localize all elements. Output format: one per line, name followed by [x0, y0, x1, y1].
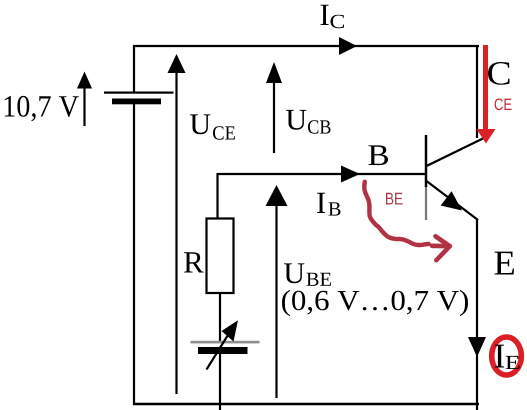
wire left rail lower	[133, 104, 135, 405]
arrow 10,7V polarity	[83, 86, 85, 126]
variable source adjustment arrow diagonal	[207, 335, 229, 370]
label voltage range 0,6V to 0,7V	[282, 290, 468, 316]
label IC	[321, 5, 329, 25]
label IE	[495, 345, 504, 368]
wire variable source to bottom rail	[219, 354, 221, 410]
arrowhead IB current direction on base wire	[341, 166, 360, 183]
label UBE	[284, 263, 304, 283]
wire emitter down to bottom rail	[476, 219, 478, 410]
battery 10,7V short thick plate	[112, 99, 161, 105]
wire base horizontal	[218, 173, 426, 175]
transistor Q1 collector lead	[427, 136, 490, 167]
battery 10,7V long thin plate	[104, 92, 174, 94]
arrow UCB voltage	[273, 80, 275, 153]
wire top rail	[133, 45, 479, 47]
wire right collector drop	[476, 45, 478, 138]
red annotation arrowhead	[477, 129, 496, 144]
label C collector terminal	[488, 62, 510, 85]
label 10,7 V	[5, 96, 79, 121]
variable source long thin plate (gray)	[191, 341, 260, 344]
label BE red annotation	[386, 193, 403, 205]
arrowhead IC current direction on top rail	[339, 37, 357, 55]
arrow UCE voltage	[175, 70, 177, 394]
label IB	[317, 193, 325, 213]
arrow UBE voltage	[275, 203, 277, 398]
wire from base corner down to resistor	[216, 173, 218, 219]
label R	[184, 252, 204, 272]
transistor Q1 emitter lead	[427, 181, 479, 220]
variable source short thick plate	[198, 347, 248, 354]
red annotation line along collector (CE)	[483, 45, 488, 130]
wire bottom rail	[133, 403, 479, 406]
label UCB	[286, 110, 306, 130]
label E emitter terminal	[495, 252, 515, 275]
arrowhead IE current direction on emitter wire	[468, 337, 486, 357]
label CE red annotation	[495, 99, 512, 111]
wire left rail upper	[133, 45, 135, 92]
red ellipse highlight around IE	[492, 337, 522, 375]
wire resistor to variable source	[219, 293, 221, 341]
transistor Q1 base bar	[425, 135, 428, 187]
label UCE	[190, 114, 210, 134]
red squiggle arrow from base toward emitter (BE)	[364, 182, 428, 245]
resistor R	[207, 219, 234, 294]
label B	[369, 145, 389, 165]
transistor Q1 emitter arrowhead	[441, 191, 462, 210]
